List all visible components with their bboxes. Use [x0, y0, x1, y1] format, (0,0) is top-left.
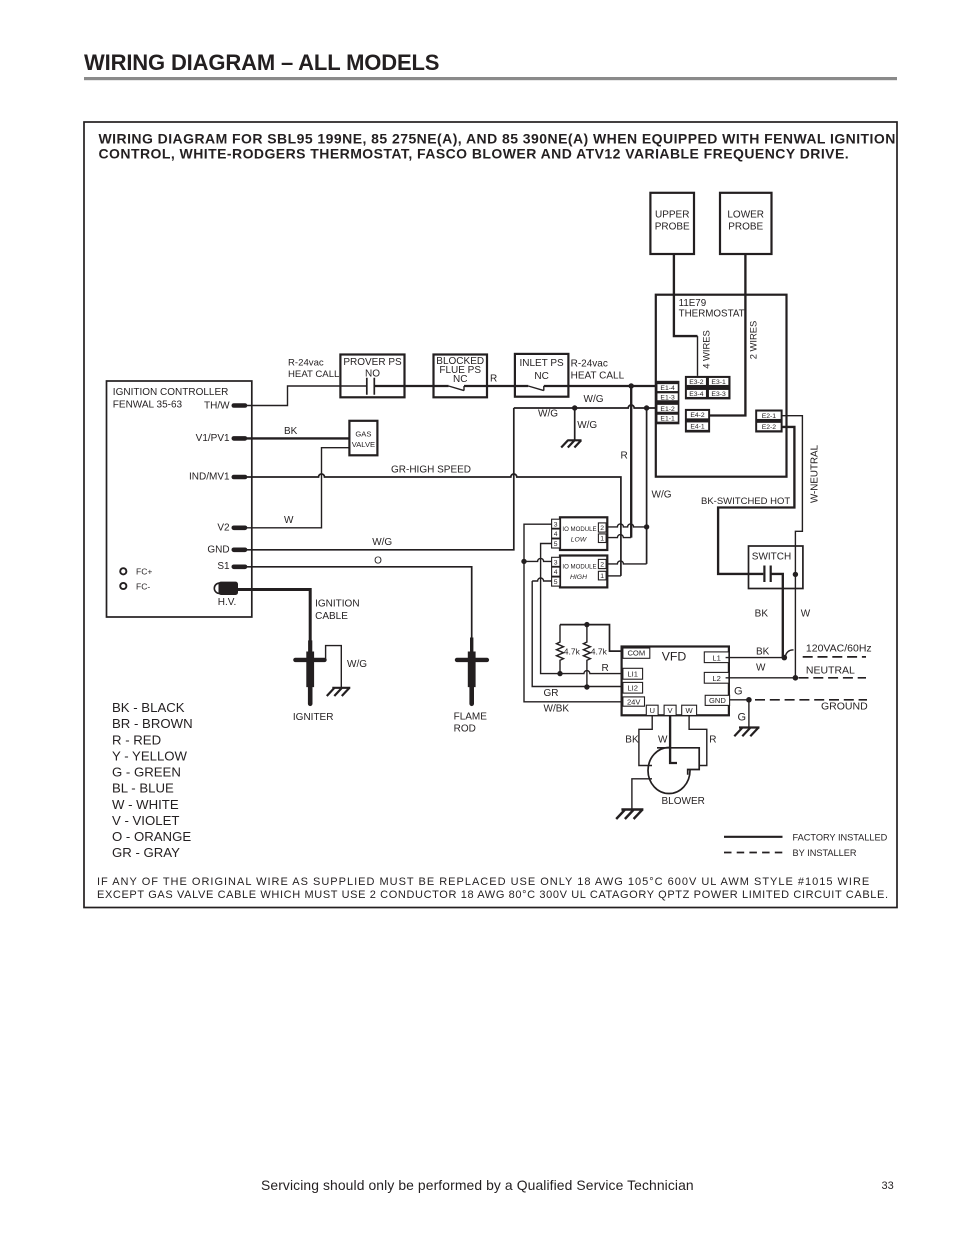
svg-text:H.V.: H.V. [218, 597, 237, 608]
svg-text:GAS: GAS [355, 430, 371, 439]
svg-text:1: 1 [600, 573, 604, 580]
dashed GROUND line [755, 699, 867, 701]
dashed NEUTRAL line [799, 677, 867, 679]
svg-text:CABLE: CABLE [315, 611, 348, 622]
wire lower probe to E4-2 [710, 254, 745, 415]
svg-text:W: W [284, 515, 294, 526]
wire L2 to neutral [726, 677, 796, 679]
svg-text:BK - BLACK: BK - BLACK [112, 700, 185, 715]
pin IND/MV1 [189, 472, 247, 483]
svg-text:IGNITION: IGNITION [315, 599, 359, 610]
gas valve [349, 421, 377, 456]
pin V1/PV1 [196, 433, 248, 444]
svg-text:IO MODULE: IO MODULE [562, 526, 596, 533]
svg-text:TH/W: TH/W [204, 400, 230, 411]
terminal L1 [704, 652, 729, 663]
node GND [746, 697, 752, 703]
svg-text:GR: GR [544, 688, 559, 699]
svg-text:R - RED: R - RED [112, 732, 161, 747]
wire IO LOW pin1 from R (hop over GR) [606, 535, 631, 538]
svg-text:NEUTRAL: NEUTRAL [806, 665, 855, 677]
resistor R1 4.7k [557, 625, 564, 674]
wire prover to blocked flue [374, 385, 448, 387]
svg-text:IGNITER: IGNITER [293, 712, 334, 723]
svg-text:4.7k: 4.7k [564, 647, 581, 657]
svg-text:IND/MV1: IND/MV1 [189, 472, 230, 483]
terminal V [664, 705, 676, 715]
thermostat box 11E79 [656, 295, 787, 477]
svg-text:L1: L1 [712, 653, 720, 662]
svg-text:W/G: W/G [347, 659, 367, 670]
svg-text:HIGH: HIGH [570, 574, 587, 581]
dashed 120VAC line [803, 656, 866, 658]
svg-text:E3-2: E3-2 [689, 379, 704, 386]
svg-text:W: W [658, 735, 668, 746]
svg-text:E4-1: E4-1 [690, 424, 705, 431]
svg-text:THERMOSTAT: THERMOSTAT [679, 309, 745, 320]
upper probe U1 [650, 193, 694, 254]
svg-text:BLOWER: BLOWER [662, 796, 705, 807]
wire TH/W to prover PS (R-24vac) [247, 386, 367, 406]
wire switch BK down to L1 [771, 574, 783, 658]
outer diagram frame [84, 122, 897, 908]
svg-text:FENWAL 35-63: FENWAL 35-63 [113, 400, 183, 411]
svg-text:G: G [738, 711, 747, 723]
wire HIGH pin5 (hop) then down to LI2 rail [532, 578, 551, 581]
svg-text:E2-1: E2-1 [762, 413, 777, 420]
svg-text:1: 1 [600, 536, 604, 543]
wire IO LOW pin2 (hops over GR and R) [606, 524, 647, 527]
terminal group E3 [685, 376, 731, 400]
svg-text:BK: BK [284, 426, 298, 437]
prover PS [340, 355, 404, 398]
svg-text:BK: BK [755, 609, 769, 620]
terminal 24V [623, 697, 645, 707]
connector arc 120VAC [786, 650, 794, 657]
svg-text:V1/PV1: V1/PV1 [196, 433, 230, 444]
svg-text:W - WHITE: W - WHITE [112, 797, 179, 812]
svg-text:COM: COM [627, 649, 645, 658]
svg-text:GROUND: GROUND [821, 701, 868, 713]
svg-text:BL - BLUE: BL - BLUE [112, 781, 174, 796]
svg-text:O: O [374, 555, 382, 566]
blocked flue NC blade [449, 386, 464, 391]
wire drop to E3-2 [697, 336, 699, 376]
ground (igniter) [327, 688, 351, 696]
svg-text:LOW: LOW [571, 537, 587, 544]
resistor R2 4.7k [583, 625, 590, 687]
svg-text:GR - GRAY: GR - GRAY [112, 845, 180, 860]
svg-text:LOWER: LOWER [727, 210, 764, 221]
svg-text:W/G: W/G [584, 394, 604, 405]
svg-text:R: R [490, 374, 497, 385]
svg-text:W/G: W/G [652, 489, 672, 500]
svg-text:R: R [602, 663, 609, 674]
svg-text:E4-2: E4-2 [690, 412, 705, 419]
prover PS contact [367, 378, 375, 395]
terminal group E2 [755, 410, 782, 433]
svg-text:120VAC/60Hz: 120VAC/60Hz [806, 643, 872, 655]
wire O from S1 to flame rod [247, 567, 472, 638]
svg-text:UPPER: UPPER [655, 210, 689, 221]
pin GND [207, 545, 247, 556]
wire inlet to E1-4 [544, 385, 657, 387]
node pins3 junction [521, 559, 526, 564]
wire W/G ground drop [574, 408, 576, 440]
svg-text:W: W [686, 706, 694, 715]
legend by installer [724, 852, 783, 854]
svg-text:GND: GND [207, 545, 229, 556]
svg-text:E3-1: E3-1 [711, 379, 726, 386]
wire blower ground [632, 779, 652, 810]
svg-text:4: 4 [554, 531, 558, 538]
svg-text:4.7k: 4.7k [591, 647, 608, 657]
svg-text:LI1: LI1 [627, 670, 638, 679]
wire L1 to 120VAC [726, 657, 785, 659]
IO module LOW [552, 517, 608, 550]
terminal LI2 [623, 682, 643, 693]
svg-text:R-24vac: R-24vac [288, 358, 324, 369]
svg-text:BR - BROWN: BR - BROWN [112, 716, 193, 731]
blocked flue PS [434, 355, 488, 398]
svg-text:V - VIOLET: V - VIOLET [112, 813, 179, 828]
pin TH/W [204, 400, 247, 411]
svg-text:IGNITION CONTROLLER: IGNITION CONTROLLER [113, 387, 229, 398]
svg-text:HEAT CALL: HEAT CALL [288, 369, 340, 380]
svg-text:E1-3: E1-3 [660, 394, 675, 401]
svg-text:SWITCH: SWITCH [752, 551, 791, 562]
svg-text:S1: S1 [217, 561, 230, 572]
wire W/G horizontal to E1-2 (hop over R) [514, 405, 657, 408]
svg-text:HEAT CALL: HEAT CALL [571, 371, 625, 382]
wire ground drop [748, 700, 750, 728]
terminal COM [623, 648, 650, 658]
wire IO HIGH pin1 from GR [606, 575, 621, 577]
svg-text:FACTORY INSTALLED: FACTORY INSTALLED [793, 832, 888, 842]
wire blocked flue to inlet [464, 385, 528, 387]
terminal FC+ [120, 567, 152, 577]
svg-text:W-NEUTRAL: W-NEUTRAL [809, 444, 820, 503]
node W/G ground tap [572, 405, 577, 410]
svg-text:EXCEPT GAS VALVE CABLE WHICH M: EXCEPT GAS VALVE CABLE WHICH MUST USE 2 … [97, 889, 889, 901]
svg-text:11E79: 11E79 [679, 298, 707, 309]
node pin2 LOW junction [644, 524, 649, 529]
svg-text:G - GREEN: G - GREEN [112, 765, 181, 780]
svg-text:5: 5 [554, 579, 558, 586]
svg-text:W: W [756, 663, 766, 674]
svg-text:W/BK: W/BK [544, 704, 570, 715]
svg-text:WIRING DIAGRAM FOR SBL95 199NE: WIRING DIAGRAM FOR SBL95 199NE, 85 275NE… [99, 130, 896, 146]
svg-text:W/G: W/G [538, 409, 558, 420]
svg-text:PROBE: PROBE [728, 221, 763, 232]
svg-text:Y - YELLOW: Y - YELLOW [112, 748, 188, 763]
pin S1 [217, 561, 247, 572]
node R1 to LI1 rail [557, 671, 562, 676]
switch box [749, 546, 803, 589]
svg-text:V2: V2 [217, 523, 230, 534]
flame rod symbol [457, 638, 487, 704]
wire W R to blower [689, 716, 707, 766]
node W/G to E1-2 [644, 405, 649, 410]
wire BK to gas valve [247, 437, 349, 439]
inlet PS [515, 354, 569, 397]
inlet NC blade [528, 386, 544, 391]
wire GND to ground [730, 699, 749, 701]
switch contact plates [764, 566, 770, 583]
wire V W to blower [670, 716, 677, 763]
wire W/G igniter to ground [326, 646, 342, 688]
terminal group E4 [685, 409, 710, 433]
terminal group E1 [656, 381, 680, 425]
VFD box [622, 647, 729, 716]
svg-text:R: R [621, 451, 628, 462]
ground (blower) [616, 810, 643, 820]
svg-text:FLAME: FLAME [454, 711, 488, 722]
svg-text:E1-1: E1-1 [660, 416, 675, 423]
svg-text:U: U [649, 706, 654, 715]
igniter symbol [295, 640, 324, 703]
wire GR high speed from IND/MV1 (hops over W and W/G) [247, 474, 621, 576]
svg-text:W: W [801, 609, 811, 620]
svg-text:Servicing should only be perfo: Servicing should only be performed by a … [261, 1177, 694, 1193]
node L1 [782, 655, 788, 661]
lower probe U2 [720, 193, 772, 254]
svg-text:E3-4: E3-4 [689, 391, 704, 398]
wire R drop from junction to IO module LOW pin1 [630, 386, 632, 538]
svg-text:NC: NC [534, 371, 548, 382]
terminal FC- [120, 581, 150, 591]
svg-text:R: R [709, 735, 716, 746]
svg-text:2: 2 [600, 525, 604, 532]
svg-text:VFD: VFD [662, 650, 687, 664]
svg-text:IO MODULE: IO MODULE [562, 563, 596, 570]
wire H.V. ignition cable [238, 590, 310, 642]
wire W/G from GND pin [247, 408, 514, 550]
wire W/G vertical to IO modules pin2 [646, 408, 648, 564]
pin V2 [217, 523, 247, 534]
svg-text:PROBE: PROBE [655, 221, 690, 232]
svg-text:W/G: W/G [372, 537, 392, 548]
svg-text:GND: GND [709, 696, 726, 705]
wire E2-1 W neutral down through switch to L2 [782, 416, 803, 678]
color legend [112, 700, 193, 860]
svg-text:2: 2 [600, 562, 604, 569]
svg-text:GR-HIGH SPEED: GR-HIGH SPEED [391, 464, 471, 475]
svg-text:CONTROL, WHITE-RODGERS THERMOS: CONTROL, WHITE-RODGERS THERMOSTAT, FASCO… [99, 145, 850, 161]
svg-text:INLET PS: INLET PS [519, 358, 564, 369]
svg-text:BK: BK [625, 735, 639, 746]
svg-text:R-24vac: R-24vac [571, 358, 608, 369]
terminal GND [705, 695, 729, 705]
svg-text:G: G [734, 685, 743, 697]
svg-text:4 WIRES: 4 WIRES [701, 330, 712, 369]
svg-text:E1-4: E1-4 [660, 385, 675, 392]
svg-text:3: 3 [554, 521, 558, 528]
wire U BK to blower [639, 716, 652, 766]
svg-text:24V: 24V [627, 697, 641, 706]
terminal U [646, 705, 658, 715]
svg-text:WIRING DIAGRAM – ALL MODELS: WIRING DIAGRAM – ALL MODELS [84, 50, 439, 75]
ignition controller box FENWAL 35-63 [107, 381, 252, 617]
svg-text:L2: L2 [712, 674, 720, 683]
wire LOW pin5 down to LI1 rail [541, 544, 623, 674]
wire E2-2 BK switched hot to switch [718, 427, 794, 574]
IO module HIGH [552, 556, 608, 588]
node junction R [629, 383, 634, 388]
ground (VFD) [734, 728, 759, 737]
svg-text:W/G: W/G [577, 420, 597, 431]
svg-text:FC-: FC- [136, 581, 150, 591]
svg-text:33: 33 [882, 1180, 894, 1192]
svg-text:BY INSTALLER: BY INSTALLER [793, 848, 857, 858]
wire IO HIGH pin2 from W/G (hop over GR) [606, 561, 647, 564]
wire pins3 LOW to HIGH and down to 24V [524, 524, 552, 561]
svg-text:BK-SWITCHED HOT: BK-SWITCHED HOT [701, 496, 790, 507]
node L2 neutral [793, 675, 799, 681]
svg-text:E1-2: E1-2 [660, 406, 675, 413]
node switch W [793, 572, 798, 577]
blower motor [648, 747, 705, 808]
svg-text:5: 5 [554, 541, 558, 548]
svg-text:FC+: FC+ [136, 567, 152, 577]
ground (thermostat area) [561, 440, 581, 447]
wire upper probe to thermostat E3-2 [674, 254, 698, 336]
svg-text:BK: BK [756, 647, 770, 658]
svg-text:O - ORANGE: O - ORANGE [112, 829, 191, 844]
svg-text:VALVE: VALVE [352, 440, 375, 449]
terminal LI1 [623, 668, 643, 679]
node top rail R2 [584, 622, 589, 627]
svg-text:ROD: ROD [454, 724, 476, 735]
svg-text:LI2: LI2 [627, 684, 638, 693]
node R2 to LI2 rail [584, 684, 589, 689]
resistor top rail to COM [560, 625, 623, 652]
terminal L2 [704, 672, 729, 683]
title rule [84, 77, 897, 80]
legend factory installed [724, 836, 783, 838]
svg-text:NC: NC [453, 374, 467, 385]
svg-text:E2-2: E2-2 [762, 424, 777, 431]
wire W from V2 to gas valve [247, 448, 349, 528]
svg-text:E3-3: E3-3 [711, 391, 726, 398]
svg-text:4: 4 [554, 569, 558, 576]
terminal W [682, 705, 697, 715]
svg-text:IF ANY OF THE ORIGINAL WIRE AS: IF ANY OF THE ORIGINAL WIRE AS SUPPLIED … [97, 876, 870, 888]
svg-text:2 WIRES: 2 WIRES [747, 321, 758, 360]
pin H.V. [214, 582, 238, 608]
svg-text:PROVER PS: PROVER PS [343, 357, 402, 368]
svg-text:3: 3 [554, 559, 558, 566]
